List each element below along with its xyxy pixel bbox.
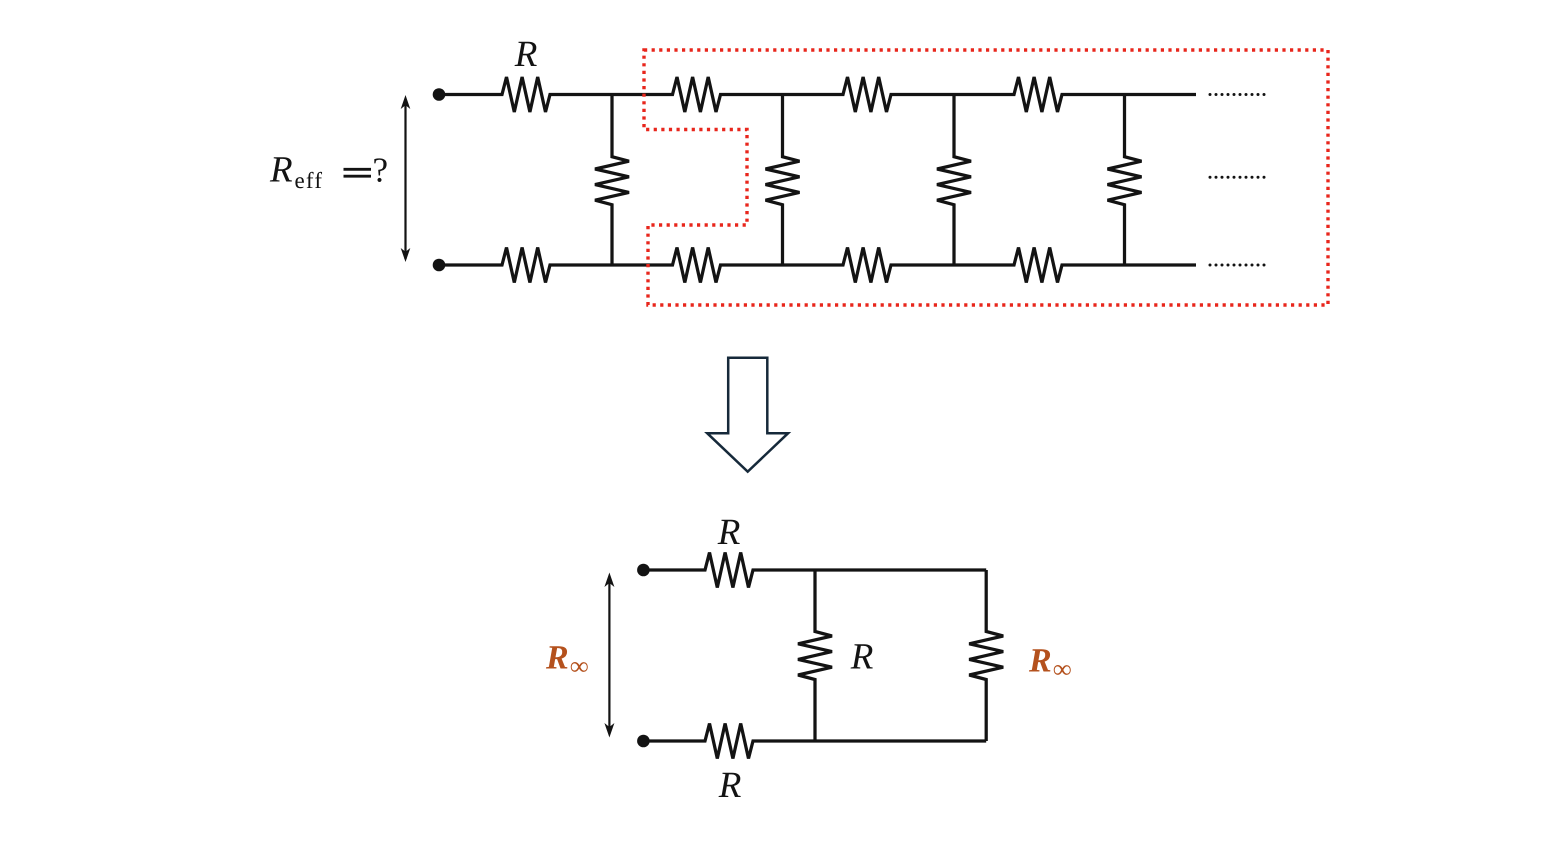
svg-text:eff: eff xyxy=(295,168,324,193)
svg-text:?: ? xyxy=(373,151,389,190)
svg-text:R: R xyxy=(718,765,742,806)
svg-text:∞: ∞ xyxy=(1053,655,1072,684)
svg-text:R: R xyxy=(269,150,293,191)
svg-text:R: R xyxy=(850,637,874,678)
svg-text:R: R xyxy=(717,512,741,553)
svg-text:R: R xyxy=(545,640,569,677)
svg-text:R: R xyxy=(1028,643,1052,680)
svg-text:R: R xyxy=(514,34,538,75)
svg-text:∞: ∞ xyxy=(570,652,589,681)
